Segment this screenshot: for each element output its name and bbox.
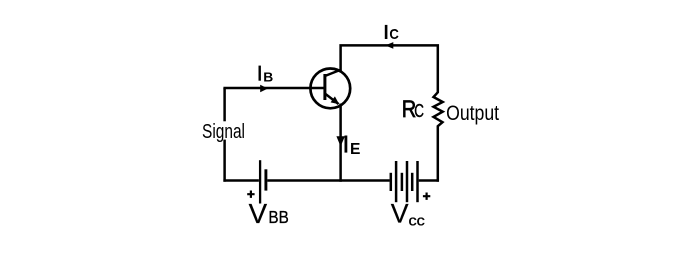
svg-text:C: C	[414, 101, 424, 121]
battery VCC short plate 2	[401, 173, 404, 191]
transistor Q1 emitter arrowhead	[331, 96, 340, 104]
transistor Q1 base bar	[323, 74, 326, 100]
arrow IB current (right)	[260, 85, 268, 92]
svg-text:Signal: Signal	[202, 120, 245, 143]
plus sign VCC	[423, 193, 430, 200]
label IC letter I	[385, 25, 388, 39]
plus sign VBB	[247, 191, 254, 198]
wire bottom left segment	[223, 179, 259, 182]
arrow IE current (down)	[336, 136, 345, 146]
wire left vertical upper (Signal loop)	[223, 88, 226, 121]
battery VCC short plate 3	[411, 173, 414, 191]
wire bottom right segment	[419, 179, 439, 182]
battery VCC long plate 3	[416, 161, 419, 202]
svg-text:E: E	[350, 141, 361, 158]
wire bottom middle segment	[267, 179, 389, 182]
svg-text:C: C	[389, 26, 399, 43]
svg-text:cc: cc	[409, 213, 426, 230]
svg-text:Output: Output	[446, 102, 499, 125]
wire base horizontal	[223, 87, 324, 90]
svg-text:V: V	[391, 199, 409, 229]
svg-text:V: V	[249, 198, 268, 229]
battery VCC long plate 1	[395, 161, 398, 202]
transistor Q1 emitter diagonal	[325, 94, 339, 105]
svg-text:B: B	[263, 70, 273, 85]
svg-text:BB: BB	[268, 207, 288, 227]
wire emitter vertical	[339, 104, 342, 182]
label IE letter I	[345, 136, 348, 153]
arrow IC current (left)	[385, 42, 393, 49]
battery VBB long plate	[259, 160, 261, 203]
wire left vertical lower	[223, 140, 226, 182]
transistor Q1 circle	[310, 69, 350, 109]
battery VCC long plate 2	[406, 161, 409, 202]
label IB letter I	[259, 66, 261, 81]
transistor Q1 collector diagonal	[325, 70, 341, 76]
wire collector loop with resistor body	[341, 45, 443, 181]
battery VCC short plate 1	[390, 173, 393, 191]
battery VBB short plate	[264, 169, 267, 190]
